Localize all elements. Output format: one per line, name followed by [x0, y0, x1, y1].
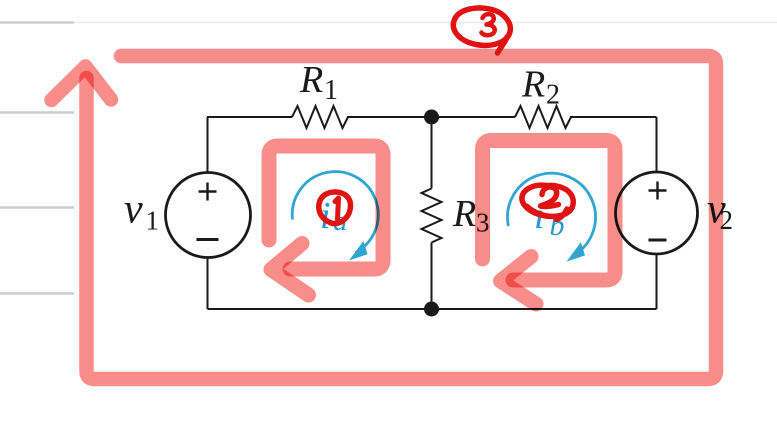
wire middle lower: [431, 243, 433, 310]
wire left lower: [207, 258, 209, 309]
svg-text:v: v: [124, 187, 143, 233]
annotation circled 1 ring: [319, 192, 351, 224]
label R2: [521, 64, 560, 111]
svg-text:1: 1: [146, 206, 160, 236]
highlighter mesh loop 1 arrowhead: [271, 244, 309, 296]
svg-text:1: 1: [324, 75, 338, 106]
label ia: [320, 195, 348, 237]
annotation circled 3 ring: [453, 8, 510, 46]
highlighter outer loop arrowhead: [52, 67, 112, 101]
label v1: [124, 187, 159, 236]
label v2: [707, 187, 733, 236]
page rule segment 1: [0, 21, 74, 23]
mesh current arrow ib: [507, 173, 595, 261]
annotation digit 2: [541, 187, 559, 206]
resistor R2: [515, 106, 571, 128]
annotation circled 3 tail: [498, 37, 508, 53]
wire top right segment: [570, 116, 657, 118]
annotation circled 2 ring: [522, 185, 573, 216]
resistor R3: [422, 189, 442, 243]
label R3: [452, 193, 490, 238]
page rule segment 2: [0, 111, 74, 113]
mesh current arrow ia: [292, 172, 378, 261]
svg-text:R: R: [521, 64, 545, 106]
source v2: [616, 172, 698, 254]
wire right lower: [656, 254, 658, 309]
label R1: [299, 59, 338, 106]
annotation circled 2 ring second pass: [527, 206, 549, 216]
highlighter mesh loop 2 arrowhead: [501, 257, 537, 305]
svg-text:R: R: [299, 59, 323, 101]
highlighter mesh loop 2: [483, 141, 616, 281]
label ib: [534, 195, 565, 242]
highlighter outer loop 3: [87, 56, 717, 379]
wire middle upper: [431, 117, 433, 189]
node top junction: [424, 110, 439, 125]
page rule line full width: [0, 22, 777, 24]
annotation digit 3: [482, 14, 495, 35]
wire top left segment: [207, 116, 292, 118]
wire right upper: [656, 117, 658, 172]
wire top middle segment: [347, 116, 515, 118]
resistor R1: [292, 106, 348, 128]
page rule segment 4: [0, 292, 74, 294]
source v1: [166, 173, 251, 258]
svg-text:R: R: [452, 193, 476, 235]
annotation digit 1: [335, 198, 339, 220]
node bottom junction: [424, 302, 439, 317]
svg-text:2: 2: [546, 80, 560, 111]
annotation circled 2 ring tail: [557, 209, 568, 220]
wire left upper: [207, 117, 209, 172]
highlighter mesh loop 1: [269, 146, 383, 269]
page rule segment 3: [0, 206, 74, 208]
wire bottom: [208, 308, 657, 310]
